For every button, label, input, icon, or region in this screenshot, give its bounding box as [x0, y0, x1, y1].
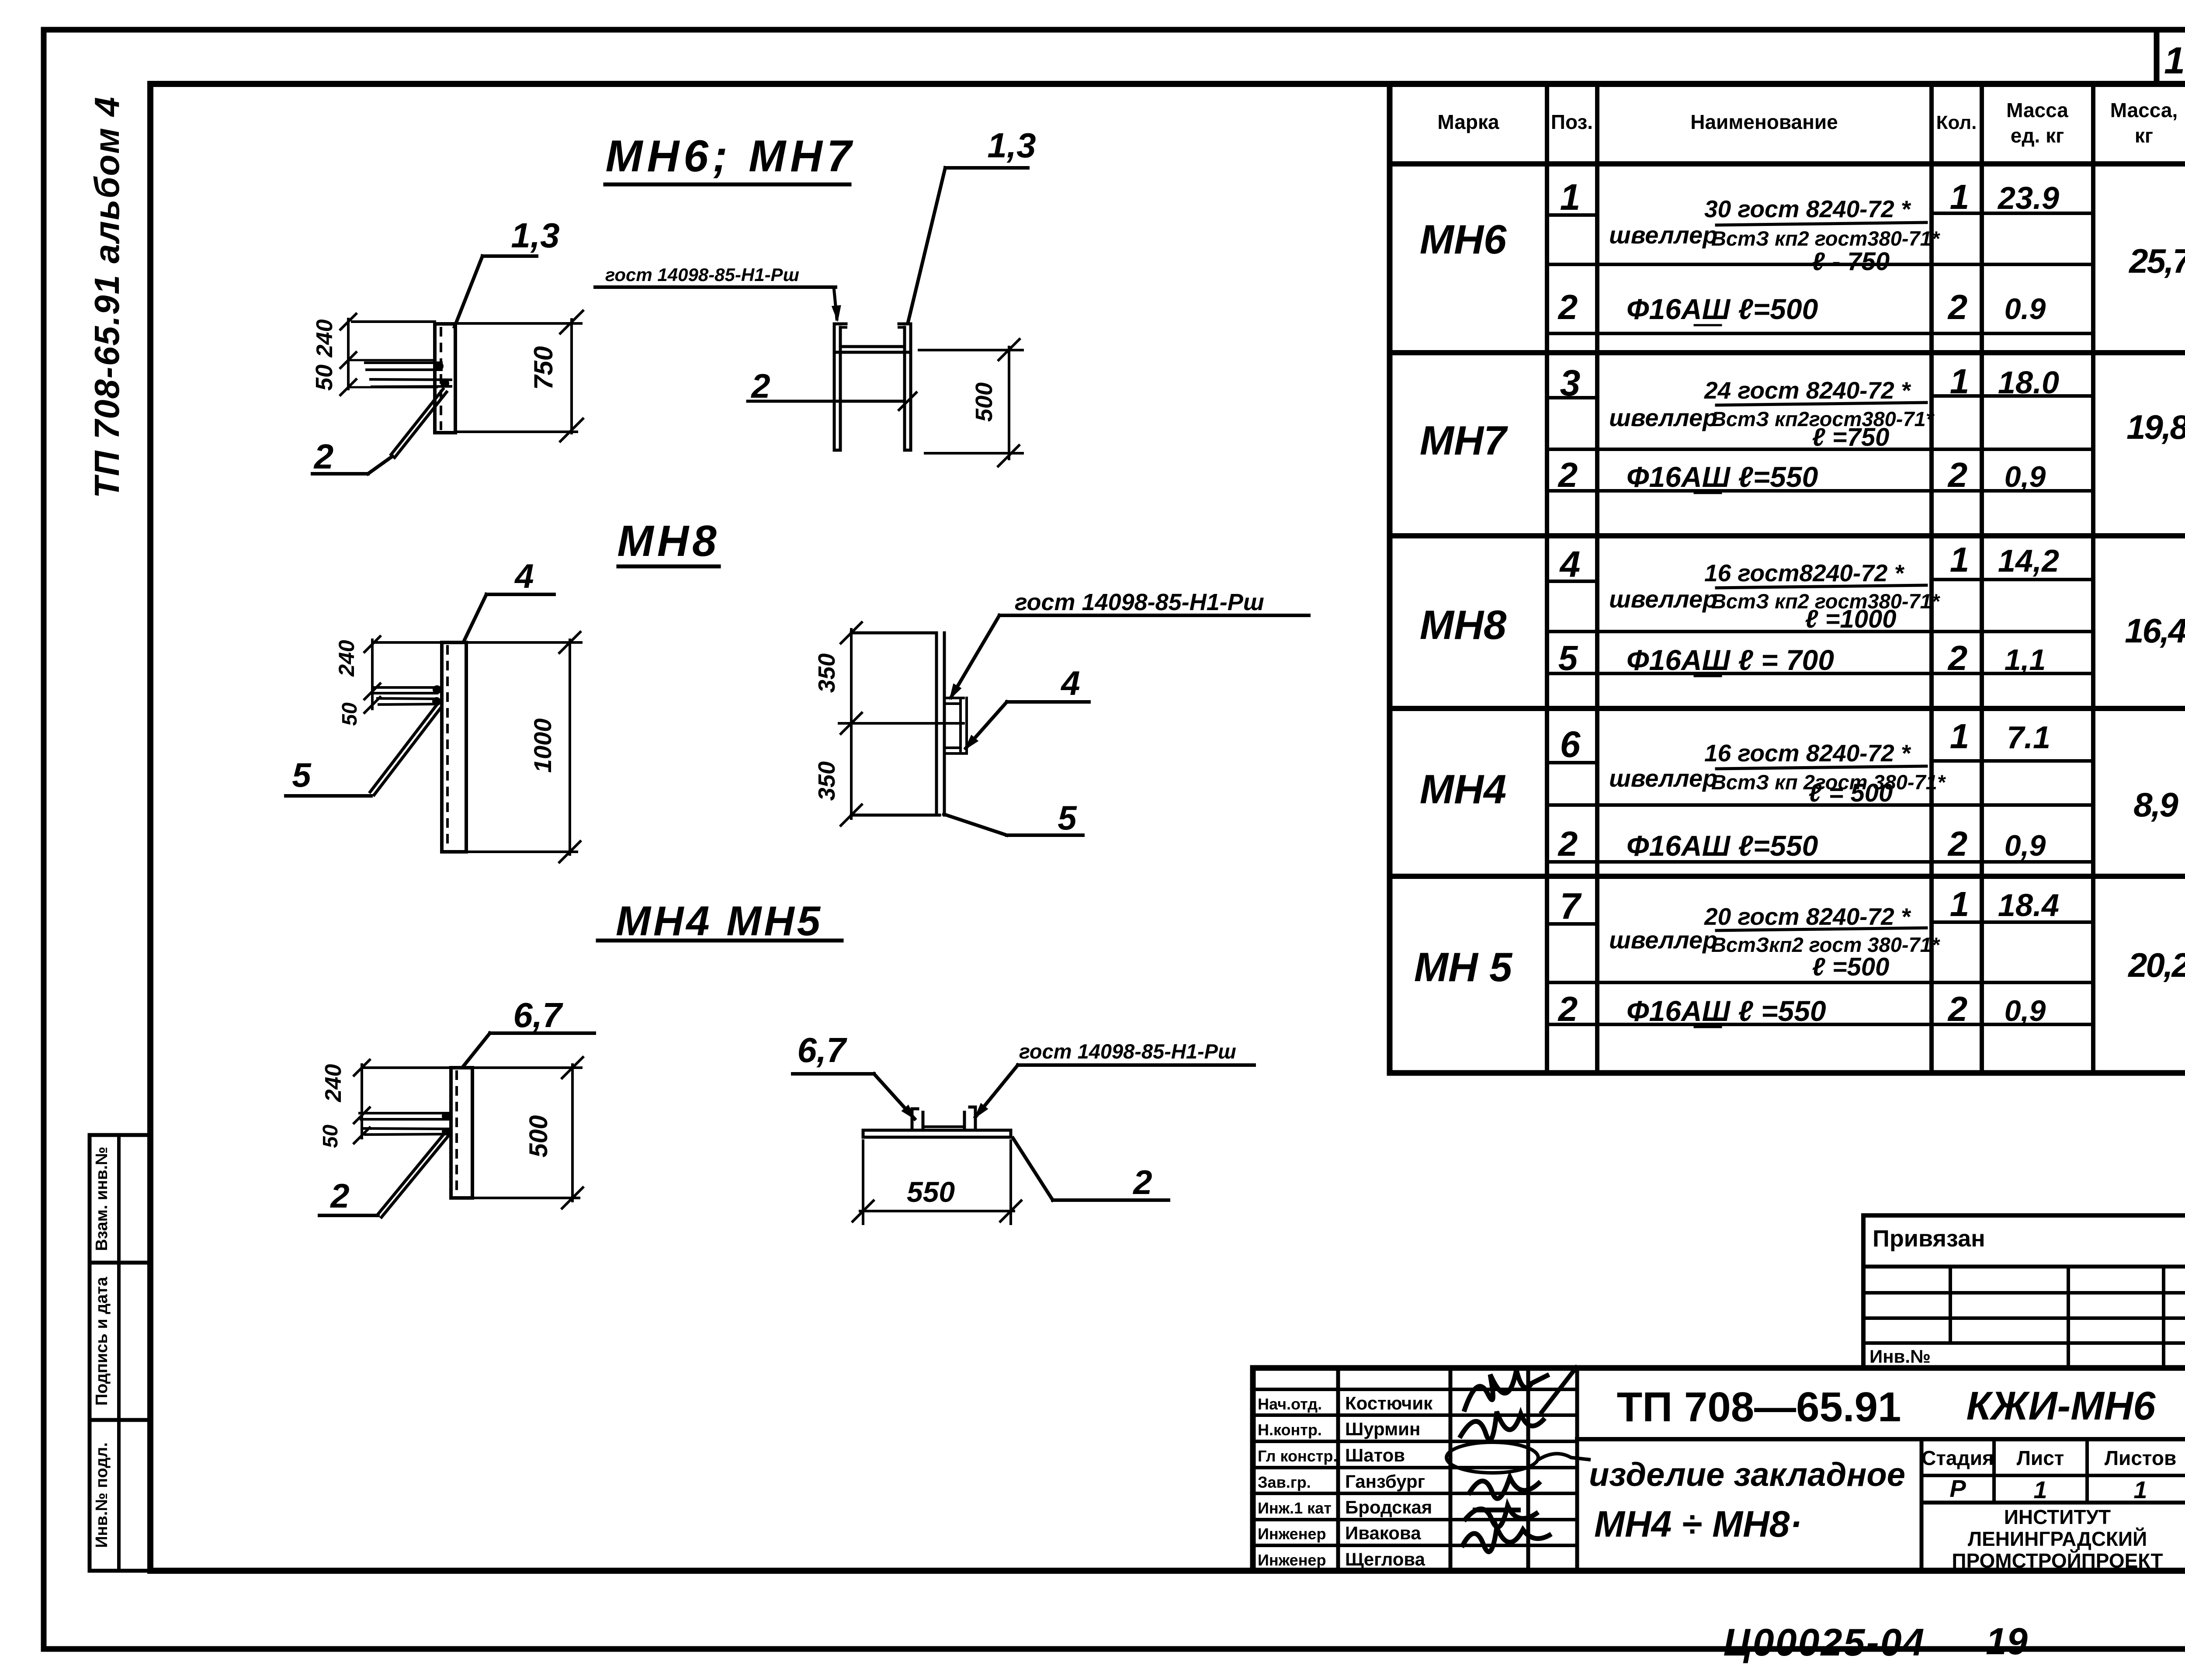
svg-text:ℓ =750: ℓ =750 — [1812, 423, 1890, 451]
svg-text:ПРОМСТРОЙПРОЕКТ: ПРОМСТРОЙПРОЕКТ — [1952, 1549, 2163, 1572]
svg-text:0,9: 0,9 — [2005, 460, 2046, 493]
spec table inner row lines block 1 — [1547, 213, 2093, 333]
svg-text:МН6; МН7: МН6; МН7 — [605, 131, 856, 181]
svg-text:гост 14098-85-Н1-Рш: гост 14098-85-Н1-Рш — [1015, 589, 1264, 615]
svg-text:20 гост 8240-72 *: 20 гост 8240-72 * — [1704, 903, 1911, 930]
svg-text:Инж.1 кат: Инж.1 кат — [1258, 1499, 1332, 1517]
fig D label ГОСТ 14098-85-Н1-Рш — [945, 589, 1309, 703]
fig B leader 1,3 — [908, 126, 1036, 322]
svg-text:КЖИ-МН6: КЖИ-МН6 — [1966, 1384, 2156, 1428]
fig B label ГОСТ 14098-85-Н1-Рш — [595, 264, 843, 323]
fig A dim ticks left — [340, 313, 357, 396]
fig D dim text 350 upper — [814, 653, 840, 693]
fig E leader 6,7 — [463, 996, 594, 1066]
fig A hidden line in plate — [440, 327, 442, 430]
spec row МН5 channel — [1414, 885, 2059, 990]
svg-text:Р: Р — [1949, 1475, 1966, 1502]
svg-text:ТП 708—65.91: ТП 708—65.91 — [1617, 1384, 1901, 1430]
svg-text:Поз.: Поз. — [1551, 111, 1593, 133]
spec mass МН5 — [2127, 946, 2185, 984]
svg-text:2: 2 — [1557, 824, 1578, 863]
fig A top extension line — [352, 322, 581, 323]
svg-text:Инженер: Инженер — [1258, 1525, 1326, 1543]
svg-text:20,2: 20,2 — [2127, 946, 2185, 984]
svg-text:МН4 МН5: МН4 МН5 — [616, 898, 823, 944]
fig E hidden line in plate — [455, 1070, 458, 1196]
svg-text:240: 240 — [321, 1064, 346, 1103]
svg-text:16 гост8240-72 *: 16 гост8240-72 * — [1704, 559, 1905, 587]
spec row МН5 rebar — [1557, 989, 2046, 1028]
svg-text:500: 500 — [524, 1115, 553, 1158]
label Инв.№ подл. — [93, 1442, 111, 1548]
svg-text:МН4: МН4 — [1420, 766, 1506, 812]
svg-text:Подпись и дата: Подпись и дата — [93, 1277, 111, 1406]
svg-text:Инженер: Инженер — [1258, 1551, 1326, 1569]
fig C dim text 1000 — [529, 719, 556, 773]
svg-text:1,1: 1,1 — [2005, 643, 2046, 677]
fig E weld dot upper — [442, 1112, 450, 1120]
svg-text:2: 2 — [750, 367, 770, 405]
title МН8 — [617, 517, 720, 566]
fig A left dim line 240/50 — [347, 319, 350, 389]
svg-text:Взам. инв.№: Взам. инв.№ — [93, 1147, 111, 1251]
fig C upper anchor rod — [372, 687, 437, 693]
svg-text:Листов: Листов — [2105, 1447, 2176, 1469]
svg-text:Марка: Марка — [1437, 111, 1499, 133]
svg-text:7: 7 — [1560, 885, 1582, 927]
margin box Подпись и дата — [90, 1263, 150, 1420]
fig A plate (channel side view) — [435, 324, 455, 433]
fig D mid line — [839, 722, 964, 725]
svg-text:2: 2 — [1947, 824, 1968, 863]
fig F label ГОСТ 14098-85-Н1-Рш — [970, 1040, 1254, 1122]
fig E plate (channel side view) — [451, 1068, 472, 1198]
svg-text:Кол.: Кол. — [1936, 112, 1977, 133]
margin box Инв.№ подл. — [90, 1420, 150, 1571]
svg-text:ЛЕНИНГРАДСКИЙ: ЛЕНИНГРАДСКИЙ — [1968, 1527, 2147, 1550]
spec table outer grid — [1390, 84, 2185, 1073]
fig D dim text 350 lower — [814, 761, 840, 801]
svg-text:50: 50 — [338, 702, 361, 726]
svg-text:1: 1 — [2033, 1476, 2047, 1503]
title block grid — [1253, 1368, 2185, 1571]
page number 19 — [1986, 1621, 2028, 1663]
svg-text:МН7: МН7 — [1420, 417, 1508, 463]
spec table inner row lines block 2 — [1547, 396, 2093, 491]
spec mass МН4 — [2133, 785, 2178, 824]
spec table inner row lines block 3 — [1547, 580, 2093, 673]
fig C dim ticks left — [364, 635, 381, 714]
sheet number 18 — [2164, 40, 2185, 82]
svg-text:МН4 ÷ МН8·: МН4 ÷ МН8· — [1594, 1503, 1802, 1545]
fig A upper anchor rod — [365, 363, 441, 370]
svg-text:Гл констр.: Гл констр. — [1258, 1447, 1337, 1465]
svg-text:Стадия: Стадия — [1921, 1447, 1994, 1469]
fig A right dim line 750 — [570, 319, 573, 433]
fig F web between tabs — [923, 1125, 964, 1128]
svg-text:изделие закладное: изделие закладное — [1589, 1456, 1905, 1493]
spec row МН8 rebar — [1558, 639, 2046, 677]
svg-text:Лист: Лист — [2017, 1447, 2064, 1469]
fig E upper anchor rod — [360, 1113, 448, 1119]
svg-text:Ф16АШ ℓ=550: Ф16АШ ℓ=550 — [1627, 461, 1818, 493]
svg-text:Ф16АШ ℓ=550: Ф16АШ ℓ=550 — [1627, 830, 1818, 862]
svg-text:ℓ =1000: ℓ =1000 — [1805, 605, 1897, 633]
svg-text:кг: кг — [2135, 124, 2153, 147]
svg-text:МН8: МН8 — [617, 517, 720, 566]
label Взам. инв.№ — [93, 1147, 111, 1251]
svg-text:Н.контр.: Н.контр. — [1258, 1421, 1322, 1439]
svg-text:Масса,: Масса, — [2110, 99, 2178, 121]
svg-text:2: 2 — [329, 1177, 349, 1215]
svg-text:швеллер: швеллер — [1609, 764, 1717, 792]
svg-text:18: 18 — [2164, 40, 2185, 82]
fig A weld dot upper — [435, 362, 444, 371]
labels Стадия Лист Листов — [1921, 1447, 2176, 1469]
svg-text:19,8: 19,8 — [2126, 408, 2185, 446]
spec table headers — [1437, 99, 2178, 147]
fig C left dim line 240/50 — [371, 640, 374, 709]
fig A bottom extension line — [458, 430, 577, 433]
svg-text:4: 4 — [514, 557, 534, 595]
svg-text:МН6: МН6 — [1420, 216, 1507, 262]
svg-text:Ивакова: Ивакова — [1345, 1523, 1421, 1543]
svg-text:2: 2 — [1132, 1163, 1152, 1201]
svg-text:1: 1 — [1560, 177, 1581, 218]
svg-text:5: 5 — [1058, 798, 1077, 837]
fig D lower anchor line — [851, 814, 940, 817]
spec row МН7 rebar — [1557, 455, 2046, 494]
svg-text:Ф16АШ ℓ = 700: Ф16АШ ℓ = 700 — [1627, 644, 1834, 676]
fig E dim text 50 — [319, 1125, 342, 1148]
Привязан box grid — [1863, 1215, 2185, 1368]
fig E dim ticks left — [353, 1059, 371, 1144]
values Р 1 1 — [1949, 1475, 2147, 1503]
svg-text:Ц00025-04: Ц00025-04 — [1723, 1621, 1925, 1664]
svg-text:Нач.отд.: Нач.отд. — [1258, 1395, 1322, 1413]
svg-text:2: 2 — [1947, 288, 1968, 326]
svg-text:16,4: 16,4 — [2125, 611, 2185, 650]
spec row МН6 channel — [1420, 177, 2059, 276]
svg-text:14,2: 14,2 — [1998, 544, 2059, 579]
fig E top extension line — [362, 1066, 581, 1069]
svg-text:0,9: 0,9 — [2005, 994, 2046, 1027]
svg-text:2: 2 — [1947, 989, 1968, 1028]
doc number ТП 708—65.91 — [1617, 1384, 1901, 1430]
fig E leader 2 — [319, 1177, 378, 1215]
fig E lower anchor rod — [364, 1128, 448, 1135]
svg-text:6,7: 6,7 — [513, 996, 563, 1034]
margin box Взам. инв.№ — [90, 1135, 150, 1263]
fig E weld dot lower — [442, 1128, 450, 1135]
svg-text:1: 1 — [1950, 177, 1970, 216]
svg-text:6,7: 6,7 — [797, 1031, 847, 1069]
svg-text:6: 6 — [1560, 724, 1581, 765]
institute name — [1952, 1506, 2163, 1572]
svg-text:18.0: 18.0 — [1998, 365, 2059, 400]
fig D leader 5 — [944, 798, 1083, 837]
svg-text:гост 14098-85-Н1-Рш: гост 14098-85-Н1-Рш — [605, 264, 799, 285]
svg-text:ТП 708-65.91 альбом 4: ТП 708-65.91 альбом 4 — [87, 96, 126, 498]
fig C top extension line — [372, 641, 581, 644]
vertical inscription ТП 708-65.91 альбом 4 — [87, 96, 126, 498]
label Привязан — [1873, 1225, 1985, 1252]
svg-text:5: 5 — [292, 756, 312, 794]
title block names — [1258, 1393, 1433, 1569]
spec row МН8 channel — [1420, 540, 2059, 648]
fig A weld dot lower — [440, 379, 449, 388]
svg-text:Ф16АШ ℓ=500: Ф16АШ ℓ=500 — [1627, 293, 1818, 325]
svg-text:240: 240 — [312, 319, 337, 358]
fig E right dim line 500 — [524, 1056, 584, 1209]
svg-text:ℓ = 500: ℓ = 500 — [1809, 779, 1893, 807]
title МН4 МН5 — [598, 898, 842, 944]
svg-text:1000: 1000 — [529, 719, 556, 773]
fig B web lines — [834, 347, 911, 352]
svg-text:швеллер: швеллер — [1609, 926, 1717, 954]
document number Ц00025-04 — [1723, 1621, 1925, 1664]
svg-text:0,9: 0,9 — [2005, 829, 2046, 862]
label Инв.№ — [1869, 1346, 1931, 1367]
fig E dim text 240 — [321, 1064, 346, 1103]
svg-text:23.9: 23.9 — [1997, 181, 2059, 216]
svg-text:ВстЗ кп2 гост380-71*: ВстЗ кп2 гост380-71* — [1711, 227, 1941, 250]
fig A dim text 240 — [312, 319, 337, 358]
fig A dim text 750 — [529, 346, 558, 390]
fig E bent anchor — [378, 1133, 448, 1217]
svg-text:Костючик: Костючик — [1345, 1393, 1433, 1413]
svg-text:350: 350 — [814, 761, 840, 801]
svg-text:Бродская: Бродская — [1345, 1497, 1432, 1517]
svg-text:500: 500 — [971, 382, 997, 422]
svg-text:гост 14098-85-Н1-Рш: гост 14098-85-Н1-Рш — [1019, 1040, 1236, 1063]
fig C weld dot upper — [433, 685, 441, 694]
fig C hidden line in plate — [446, 645, 449, 850]
svg-text:240: 240 — [334, 640, 359, 677]
svg-text:24 гост 8240-72 *: 24 гост 8240-72 * — [1704, 377, 1911, 404]
svg-text:50: 50 — [311, 364, 337, 391]
svg-text:1: 1 — [2133, 1476, 2147, 1503]
doc code КЖИ-МН6 — [1966, 1384, 2156, 1428]
svg-text:50: 50 — [319, 1125, 342, 1148]
svg-text:швеллер: швеллер — [1609, 585, 1717, 613]
spec mass МН8 — [2125, 611, 2185, 650]
fig F left flange tab — [912, 1109, 923, 1130]
svg-text:4: 4 — [1060, 664, 1080, 702]
fig A lower anchor rod — [371, 379, 451, 387]
svg-text:Ф16АШ ℓ =550: Ф16АШ ℓ =550 — [1627, 995, 1826, 1027]
svg-text:3: 3 — [1560, 362, 1581, 403]
fig F dim 550 — [852, 1176, 1022, 1222]
svg-text:1: 1 — [1950, 717, 1970, 756]
fig C dim text 50 — [338, 702, 361, 726]
title изделие закладное — [1589, 1456, 1905, 1493]
svg-text:швеллер: швеллер — [1609, 404, 1717, 431]
fig D upper anchor line — [851, 632, 936, 635]
fig D dim ticks — [840, 621, 863, 826]
fig A dim ticks right — [559, 310, 584, 442]
fig A bent anchor — [391, 389, 447, 458]
spec mass МН6 — [2128, 242, 2185, 280]
fig A leader 2 — [312, 437, 392, 476]
svg-text:ℓ - 750: ℓ - 750 — [1812, 247, 1890, 276]
fig F anchor bar — [863, 1130, 1011, 1137]
svg-text:18.4: 18.4 — [1998, 888, 2059, 923]
fig C lower anchor rod — [378, 698, 437, 705]
svg-text:0.9: 0.9 — [2005, 292, 2046, 326]
spec table inner row lines block 4 — [1547, 761, 2093, 862]
svg-text:Щеглова: Щеглова — [1345, 1549, 1425, 1569]
svg-text:1,3: 1,3 — [987, 126, 1036, 165]
fig A dim text 50 — [311, 364, 337, 391]
spec row МН7 channel — [1420, 362, 2059, 463]
title МН6; МН7 — [605, 131, 856, 184]
svg-text:5: 5 — [1558, 639, 1578, 677]
svg-text:Масса: Масса — [2006, 99, 2068, 121]
fig D plate strip — [936, 633, 944, 815]
spec table inner row lines block 5 — [1547, 922, 2093, 1024]
svg-text:2: 2 — [1557, 288, 1578, 326]
svg-text:2: 2 — [1557, 989, 1578, 1028]
svg-text:16 гост 8240-72 *: 16 гост 8240-72 * — [1704, 739, 1911, 767]
fig B leader 2 — [748, 367, 917, 411]
title МН4 ÷ МН8 — [1594, 1503, 1802, 1545]
svg-text:ℓ =500: ℓ =500 — [1812, 953, 1890, 981]
fig C dim ticks right — [558, 631, 581, 863]
svg-text:1: 1 — [1950, 362, 1970, 401]
svg-text:1: 1 — [1950, 540, 1970, 579]
svg-text:Ганзбург: Ганзбург — [1345, 1471, 1425, 1492]
fig A leader 1,3 — [454, 216, 560, 327]
svg-text:Шатов: Шатов — [1345, 1445, 1405, 1465]
svg-text:Привязан: Привязан — [1873, 1225, 1985, 1252]
fig B right dim 500 — [971, 338, 1020, 467]
fig C leader 4 — [465, 557, 554, 640]
svg-text:30 гост 8240-72 *: 30 гост 8240-72 * — [1704, 195, 1911, 222]
svg-text:Наименование: Наименование — [1690, 111, 1838, 133]
svg-text:550: 550 — [907, 1176, 955, 1208]
svg-text:2: 2 — [1947, 455, 1968, 494]
fig C leader 5 — [286, 756, 371, 796]
svg-text:швеллер: швеллер — [1609, 221, 1717, 249]
fig F leader 6,7 — [793, 1031, 919, 1123]
spec row МН4 rebar — [1557, 824, 2046, 863]
svg-text:Инв.№ подл.: Инв.№ подл. — [93, 1442, 111, 1548]
fig E left dim line 240/50 — [361, 1065, 363, 1138]
svg-text:ед. кг: ед. кг — [2011, 124, 2064, 147]
fig C bottom extension line — [469, 850, 577, 853]
svg-text:Инв.№: Инв.№ — [1869, 1346, 1931, 1367]
fig C weld dot lower — [432, 697, 441, 706]
svg-text:2: 2 — [1947, 639, 1968, 677]
svg-text:7.1: 7.1 — [2007, 720, 2050, 755]
fig C right dim line 1000 — [569, 640, 571, 854]
fig C dim text 240 — [334, 640, 359, 677]
fig D channel profile — [945, 698, 967, 753]
svg-text:1,3: 1,3 — [511, 216, 559, 255]
fig F dim extension lines — [863, 1141, 1011, 1224]
svg-text:Зав.гр.: Зав.гр. — [1258, 1473, 1311, 1491]
fig B right anchor with flange tab — [899, 324, 911, 450]
fig B left anchor with flange tab — [834, 324, 846, 450]
label Подпись и дата — [93, 1277, 111, 1406]
sheet number box top right — [2157, 30, 2185, 84]
svg-text:8,9: 8,9 — [2133, 785, 2178, 824]
svg-text:350: 350 — [814, 653, 840, 693]
svg-text:19: 19 — [1986, 1621, 2028, 1663]
spec row МН4 channel — [1420, 717, 2050, 812]
svg-text:МН 5: МН 5 — [1414, 944, 1513, 990]
fig F leader 2 — [1013, 1138, 1169, 1201]
fig A mid extension lines — [350, 360, 437, 387]
fig D leader 4 — [961, 664, 1089, 753]
fig F right flange tab — [964, 1107, 975, 1130]
fig E bottom extension line — [475, 1197, 579, 1199]
svg-text:1: 1 — [1950, 885, 1970, 923]
svg-text:МН8: МН8 — [1420, 602, 1507, 648]
fig C bent anchor — [370, 705, 441, 795]
svg-text:2: 2 — [313, 437, 334, 476]
spec row МН6 rebar — [1557, 288, 2046, 326]
fig C plate (channel side view) — [442, 642, 466, 852]
svg-text:25,7: 25,7 — [2128, 242, 2185, 280]
spec mass МН7 — [2126, 408, 2185, 446]
svg-text:ИНСТИТУТ: ИНСТИТУТ — [2004, 1506, 2111, 1528]
title block signatures — [1446, 1366, 1591, 1552]
svg-text:Шурмин: Шурмин — [1345, 1419, 1420, 1439]
fig B dim extension lines — [919, 350, 1023, 453]
svg-text:4: 4 — [1559, 544, 1581, 585]
svg-text:750: 750 — [529, 346, 558, 390]
svg-text:2: 2 — [1557, 455, 1578, 494]
fig D left dim line 350/350 — [850, 629, 853, 819]
